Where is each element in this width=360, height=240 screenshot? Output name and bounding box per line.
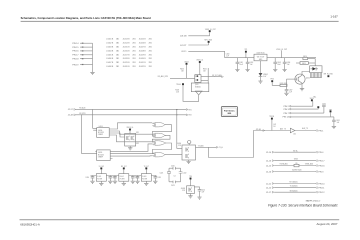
connector comb pins [310,73,321,78]
svg-text:PIN 17: PIN 17 [318,160,325,162]
svg-text:PIN 10: PIN 10 [318,183,325,185]
svg-text:J2-14: J2-14 [266,152,272,154]
svg-text:C430: C430 [322,103,326,105]
wire ring top [169,168,181,182]
svg-text:J2-17: J2-17 [68,109,74,111]
footer rule [20,218,340,221]
svg-text:JU406 B: JU406 B [106,58,114,60]
svg-text:C404: C404 [287,62,291,64]
node RX2 arrow [186,114,188,116]
svg-text:TP400: TP400 [176,84,181,86]
wire gate1 out loop to gate2 [152,125,171,136]
svg-text:R421: R421 [302,63,306,65]
svg-text:JU425 B: JU425 B [139,39,147,41]
wire U401B pin3 [113,155,153,157]
svg-text:.1uF: .1uF [287,64,290,66]
svg-text:10K: 10K [203,71,206,73]
svg-text:JU416 B: JU416 B [123,50,131,52]
svg-text:2B1: 2B1 [132,50,135,52]
svg-text:C4: C4 [174,176,176,178]
svg-text:RX1: RX1 [189,109,192,111]
capacitor C430 [322,105,326,106]
svg-text:2B1: 2B1 [116,62,119,64]
svg-text:2B1: 2B1 [149,66,152,68]
ground Q404 [188,160,190,162]
svg-text:.1uF: .1uF [226,55,229,57]
svg-text:PIN 17: PIN 17 [72,55,79,57]
svg-text:2B1: 2B1 [116,39,119,41]
svg-text:C401: C401 [239,62,243,64]
svg-text:2B1: 2B1 [132,43,135,45]
svg-text:JU429 B: JU429 B [139,54,147,56]
svg-text:.1uF: .1uF [250,64,253,66]
wire lineA to U401A [93,109,97,130]
svg-text:JU401 B: JU401 B [106,39,114,41]
wire to U403 [314,59,316,66]
svg-text:R12: R12 [136,143,139,145]
resistor R400 [186,65,188,79]
wire filter rail [91,175,157,177]
wire U401B pin1 to gate3 [113,144,153,151]
svg-text:Q402: Q402 [306,78,310,80]
wire R419 to base [286,79,288,89]
transistor Q400 dual FET [195,75,201,83]
svg-text:JU419 B: JU419 B [123,62,131,64]
capacitor C407 [285,90,289,91]
svg-text:FL401: FL401 [97,176,101,178]
svg-text:JU430 B: JU430 B [139,58,147,60]
svg-text:10uF: 10uF [239,64,243,66]
svg-text:JU413 B: JU413 B [123,39,131,41]
svg-text:MC33202: MC33202 [98,132,104,134]
wire U401A pin3 to Q403 [112,133,125,137]
wire line B [75,114,186,116]
svg-text:JU403 B: JU403 B [106,47,114,49]
svg-text:R401: R401 [203,69,207,71]
svg-text:10K: 10K [181,71,184,73]
svg-text:JU1 2B: JU1 2B [180,36,187,38]
svg-text:C424: C424 [201,190,205,192]
svg-text:.1uF: .1uF [336,122,339,124]
svg-text:JU432 B: JU432 B [139,66,147,68]
op-amp U401B [97,150,111,161]
svg-text:.1uF: .1uF [201,192,204,194]
svg-text:PIN 3: PIN 3 [318,171,324,173]
svg-text:August 24, 2007: August 24, 2007 [316,222,337,226]
svg-text:2B1: 2B1 [116,66,119,68]
capacitor C411 [109,176,111,177]
svg-text:JU431 B: JU431 B [139,62,147,64]
wire Q402 base [287,78,297,80]
svg-text:2B1: 2B1 [132,47,135,49]
testpoint TP404 [327,75,329,77]
svg-text:2B1: 2B1 [116,58,119,60]
resistor R421 [296,62,300,64]
svg-text:C410: C410 [85,177,89,179]
svg-text:2B1: 2B1 [149,58,152,60]
svg-text:J2-12: J2-12 [266,187,272,189]
svg-text:PIN 1: PIN 1 [318,130,324,132]
svg-text:JU415 B: JU415 B [123,47,131,49]
svg-text:R400: R400 [180,69,184,71]
svg-text:JU420 B: JU420 B [123,66,131,68]
svg-text:JU1 2T: JU1 2T [180,45,187,47]
svg-text:2B1: 2B1 [132,39,135,41]
wire line A [75,108,186,110]
wire Q400 drain bus [207,68,209,83]
xor gate U404D [152,153,166,157]
svg-text:Fail Series: Fail Series [224,110,236,112]
svg-text:R403: R403 [175,89,179,91]
svg-text:VR402: VR402 [263,74,268,76]
svg-text:FILTER: FILTER [97,178,102,180]
svg-text:C403: C403 [277,62,281,64]
svg-text:PIN 18: PIN 18 [72,59,79,61]
svg-text:PIN 16: PIN 16 [72,51,79,53]
svg-text:6816952H01-A: 6816952H01-A [20,223,40,227]
svg-text:PIN 14: PIN 14 [72,43,79,45]
svg-text:FL402: FL402 [120,176,124,178]
svg-text:MH_IN_CNN: MH_IN_CNN [324,73,333,75]
testpoint TP402 [208,41,210,43]
wire lineB to U401B [81,115,96,154]
svg-text:MAEPF-27412-O: MAEPF-27412-O [306,200,321,203]
capacitor C404 [284,58,286,63]
svg-text:2B1: 2B1 [132,62,135,64]
svg-text:2B1: 2B1 [116,47,119,49]
svg-text:2B1: 2B1 [116,54,119,56]
svg-text:JU408 B: JU408 B [106,66,114,68]
svg-text:FILTER: FILTER [120,178,125,180]
wire to rail [224,51,226,57]
svg-text:2B1: 2B1 [149,62,152,64]
wire U401A pin2 to gate2 [112,131,153,134]
svg-text:JU414 B: JU414 B [123,43,131,45]
wire TX routing to aux [209,131,254,158]
svg-text:2B1: 2B1 [132,66,135,68]
svg-text:J2-13: J2-13 [266,160,272,162]
xor gate U404C [152,141,166,145]
svg-text:2.2K: 2.2K [182,190,185,192]
capacitor C412 [114,176,116,177]
svg-text:FILTER: FILTER [142,178,147,180]
node RX1 arrow [186,109,188,111]
svg-text:2.2K: 2.2K [176,91,179,93]
svg-text:J2-18: J2-18 [68,115,74,117]
svg-text:JU428 B: JU428 B [139,50,147,52]
svg-text:C420: C420 [171,165,175,167]
svg-text:JU2: JU2 [293,134,296,136]
wire gate2 out loop to gate3 [152,135,170,142]
svg-text:JU404 B: JU404 B [106,50,114,52]
svg-text:JU403: JU403 [181,188,186,190]
svg-text:J2-15: J2-15 [266,165,272,167]
wire aux right [295,130,316,132]
svg-text:PIN 19: PIN 19 [72,64,79,66]
svg-text:JU426 B: JU426 B [139,43,147,45]
capacitor C422 right [179,172,183,173]
svg-text:C415: C415 [157,177,161,179]
svg-text:JU2: JU2 [273,124,276,126]
resistor R401 [199,63,201,75]
wire aux left [253,130,290,132]
svg-text:Figure 7-130. Secure Interfac: Figure 7-130. Secure Interface Board Sch… [268,203,338,207]
svg-text:MC33202: MC33202 [98,154,104,156]
wire Q402 emitter [301,83,303,89]
svg-text:2B1: 2B1 [149,43,152,45]
wire gate3 out loop to gate4 [152,143,171,154]
wire Q401 feedback loop [183,85,199,101]
svg-text:PIN 14: PIN 14 [283,117,290,119]
transistor Q402 [295,74,305,84]
svg-text:J2-17: J2-17 [266,192,272,194]
wire Q404 out [196,146,209,148]
capacitor C423 bottom [169,181,181,184]
svg-text:PIN 15: PIN 15 [72,47,79,49]
svg-text:MH: MH [329,109,331,111]
svg-text:JU402 B: JU402 B [106,43,114,45]
capacitor C414 [137,176,139,177]
svg-text:1/8: 1/8 [273,126,275,128]
svg-text:2B1: 2B1 [149,50,152,52]
svg-text:RX2: RX2 [189,115,192,117]
svg-text:JU418 B: JU418 B [123,58,131,60]
ground Q402 [300,89,304,91]
svg-text:PIN 12: PIN 12 [318,192,325,194]
wire Q405 out [194,187,199,189]
wire Q400 outputs [201,77,208,81]
svg-text:PIN 4: PIN 4 [318,152,324,154]
jumper JU405 above Q404 [188,141,191,144]
svg-text:PIN 16: PIN 16 [318,165,325,167]
svg-text:C422: C422 [183,172,187,174]
xor gate U404A [152,123,166,127]
svg-text:1-167: 1-167 [330,15,338,19]
capacitor C410 [92,176,94,177]
svg-text:C400: C400 [226,53,230,55]
svg-text:C421: C421 [160,172,164,174]
node TX_A arrow stub [216,146,218,148]
wire signal row [170,77,195,79]
capacitor C420 top [173,167,175,170]
ground pin bus [90,72,94,74]
svg-text:2B1: 2B1 [132,54,135,56]
svg-text:C402: C402 [250,62,254,64]
capacitor C413 [132,176,134,177]
transistor Q401 [191,83,209,92]
capacitor C401 [236,58,238,63]
svg-text:JU407 B: JU407 B [106,62,114,64]
wire U401B pin2 to gate4 [113,153,153,155]
testpoint TP401 [209,30,211,32]
junction [176,114,177,115]
svg-text:.1uF: .1uF [289,92,292,94]
svg-text:2B1: 2B1 [149,47,152,49]
svg-text:R406: R406 [177,143,181,145]
svg-text:2B1: 2B1 [149,54,152,56]
capacitor C415 [154,176,156,177]
wire gate4 out to Q404 [165,154,182,156]
svg-text:JU427 B: JU427 B [139,47,147,49]
transistor Q405 [187,186,195,194]
svg-text:Schematics, Component Location: Schematics, Component Location Diagrams,… [21,16,151,20]
capacitor C424 [198,190,202,191]
svg-text:R9: R9 [296,163,298,165]
wire U401A pin4 [112,135,153,142]
buffer JU2 [290,128,295,133]
header rule [21,20,339,23]
capacitor C402 [247,58,249,63]
wire Q402 collector [302,72,310,76]
svg-text:5.6V: 5.6V [263,76,266,78]
svg-text:U401B: U401B [98,152,102,154]
svg-text:10uF: 10uF [277,64,281,66]
svg-text:PIN 11: PIN 11 [318,187,325,189]
xor gate U404B [152,133,166,137]
svg-text:JU1 1: JU1 1 [181,51,187,53]
diode VR402 [260,61,262,73]
wire pin bus vertical [92,43,94,72]
svg-text:C423: C423 [171,185,175,187]
svg-text:JU417 B: JU417 B [123,54,131,56]
svg-text:VIN VOUT: VIN VOUT [257,56,265,58]
svg-text:2B1: 2B1 [116,43,119,45]
svg-text:2B1: 2B1 [116,50,119,52]
wire U401A pin1 to gate1 [112,123,153,129]
svg-text:C431: C431 [336,120,340,122]
svg-text:FL403: FL403 [142,176,146,178]
svg-text:Q401: Q401 [195,84,199,86]
capacitor C403 [274,58,276,63]
testpoint TP400 [182,83,184,85]
capacitor C431 [333,117,335,120]
svg-text:2B1: 2B1 [132,58,135,60]
wire RX1 feed vertical [177,110,182,149]
junction [176,109,177,110]
optocoupler U403 [310,66,322,73]
wire 5V rail [225,57,316,59]
svg-text:C407: C407 [289,90,293,92]
svg-text:2.2K: 2.2K [178,145,181,147]
svg-text:JU405 B: JU405 B [106,54,114,56]
svg-text:J2-16: J2-16 [266,171,272,173]
svg-text:2B1: 2B1 [149,39,152,41]
transistor Q404 dual FET [182,145,196,160]
ground Q405 [190,194,192,196]
capacitor C421 left [167,172,171,173]
